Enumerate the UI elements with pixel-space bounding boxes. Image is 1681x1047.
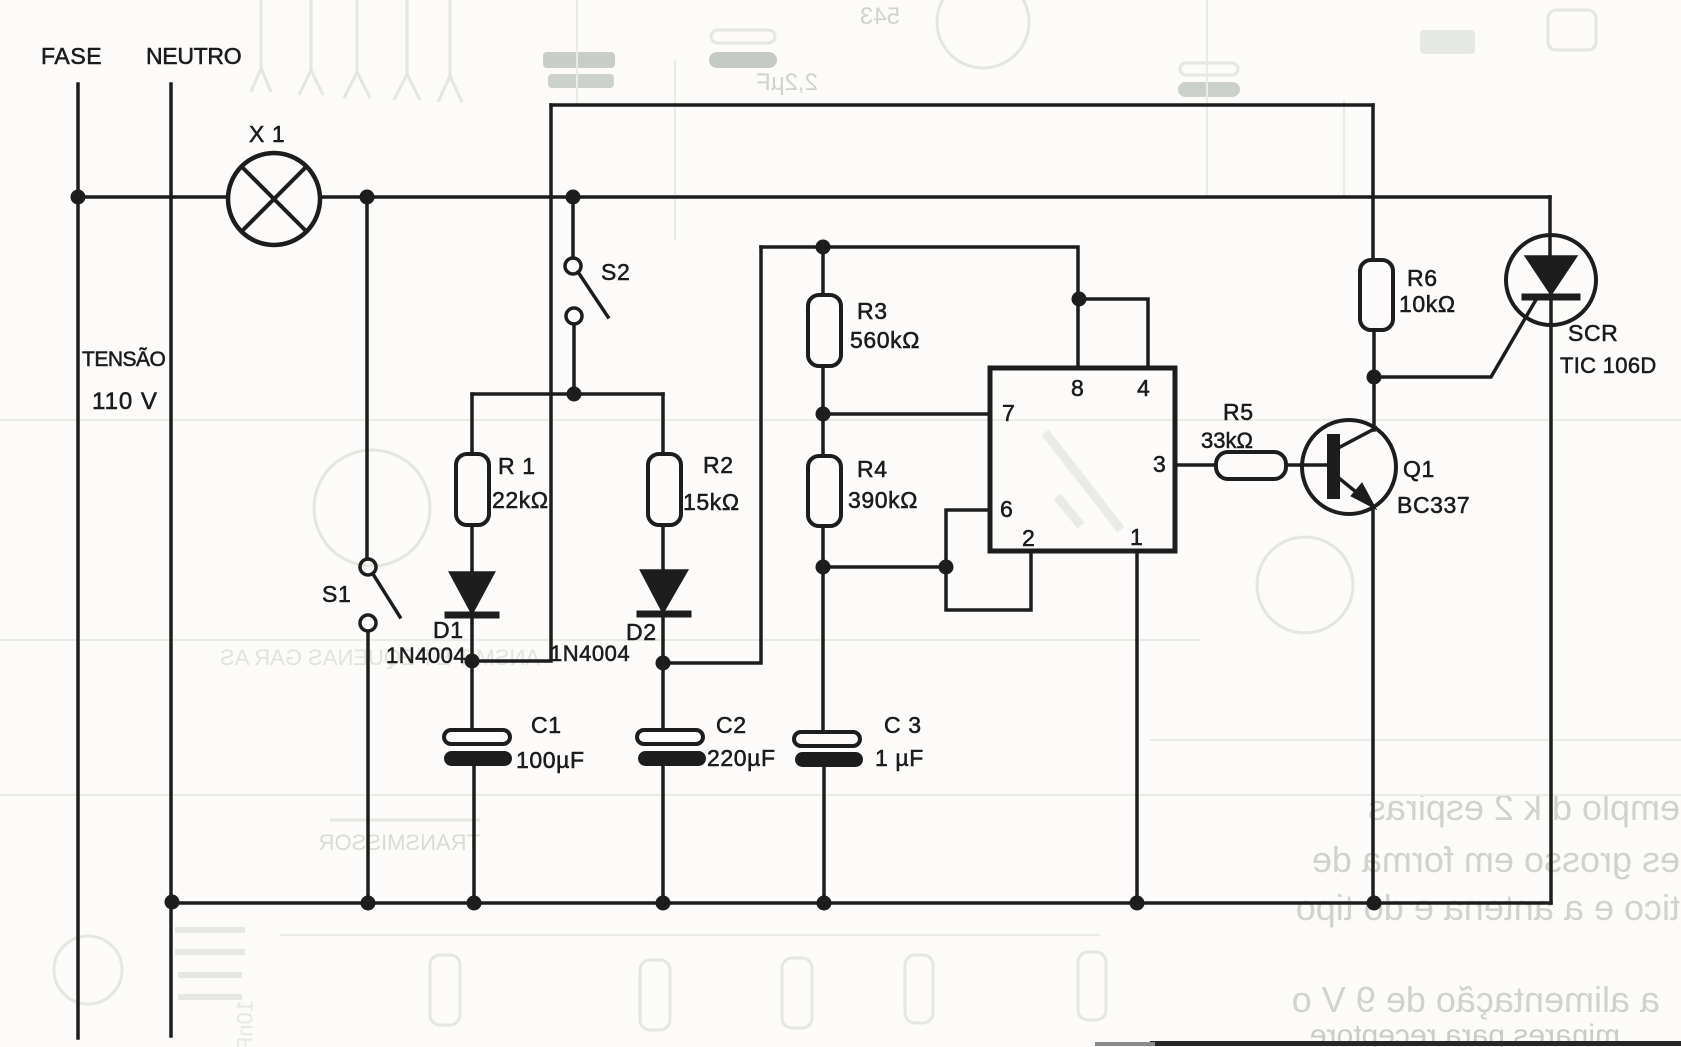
svg-text:3: 3 xyxy=(1153,451,1166,477)
node C1 bottom junction xyxy=(467,896,482,911)
wire R2 to D2 xyxy=(661,525,665,573)
svg-text:S1: S1 xyxy=(322,581,351,607)
svg-text:22kΩ: 22kΩ xyxy=(492,487,549,513)
node D2-C2 junction xyxy=(656,656,671,671)
ghost mark inside IC (decorative) xyxy=(1048,436,1118,526)
bottom-right dark scan edge xyxy=(1150,1041,1681,1046)
wire S1 upper stub xyxy=(365,197,369,559)
node S1 bottom junction xyxy=(361,896,376,911)
svg-text:10kΩ: 10kΩ xyxy=(1399,291,1456,317)
SCR TIC106D xyxy=(1506,235,1596,325)
wire R1 to D1 xyxy=(470,525,474,575)
svg-text:6: 6 xyxy=(1000,496,1013,522)
svg-text:R6: R6 xyxy=(1407,265,1438,291)
node R3 top junction xyxy=(816,240,831,255)
svg-text:8: 8 xyxy=(1071,375,1084,401)
svg-text:Q1: Q1 xyxy=(1403,456,1435,482)
resistor R6 xyxy=(1360,260,1393,330)
resistor R2 xyxy=(648,454,681,525)
node pin1 bottom junction xyxy=(1130,896,1145,911)
svg-text:7: 7 xyxy=(1002,400,1015,426)
wire R3 bottom to pin7 bus xyxy=(823,366,990,414)
svg-text:33kΩ: 33kΩ xyxy=(1201,428,1253,453)
wire D2 to C2 xyxy=(661,617,665,731)
diode D1 xyxy=(448,573,496,615)
switch S2 xyxy=(565,258,608,324)
svg-text:TRANSMISSOR: TRANSMISSOR xyxy=(319,830,480,855)
svg-text:390kΩ: 390kΩ xyxy=(848,487,918,513)
wire S2 lower stub xyxy=(572,324,576,394)
capacitor C1 xyxy=(444,730,512,766)
svg-text:TIC 106D: TIC 106D xyxy=(1560,353,1657,378)
wire SCR cathode lead xyxy=(1549,297,1553,903)
wire pin6 link xyxy=(946,510,990,567)
svg-text:TENSÃO: TENSÃO xyxy=(82,347,166,371)
node R3-R4 junction xyxy=(816,407,831,422)
node pin4 branch junction xyxy=(1072,292,1087,307)
resistor R4 xyxy=(808,456,841,526)
svg-text:100µF: 100µF xyxy=(516,747,585,773)
wire FASE rail xyxy=(76,84,80,1038)
node D1-C1 junction xyxy=(465,654,480,669)
svg-text:SCR: SCR xyxy=(1568,320,1618,346)
node FASE junction xyxy=(71,190,86,205)
wire R5 to Q1 base xyxy=(1286,463,1328,467)
resistor R3 xyxy=(808,295,841,366)
resistor R5 xyxy=(1216,452,1286,479)
svg-text:110 V: 110 V xyxy=(92,388,158,415)
resistor R1 xyxy=(456,454,489,525)
wire x=551 drop to D1 cathode xyxy=(472,105,551,661)
wire R1-R2 top bus y=394 xyxy=(472,392,663,396)
diode D2 xyxy=(640,571,688,614)
svg-text:emplo d k 2 espiras: emplo d k 2 espiras xyxy=(1368,787,1680,828)
wire R1 top lead xyxy=(470,394,474,454)
wire pin2 link xyxy=(946,551,1031,610)
node S2 top junction xyxy=(566,190,581,205)
svg-text:C 3: C 3 xyxy=(884,712,922,738)
svg-text:15kΩ: 15kΩ xyxy=(683,489,740,515)
svg-text:1N4004: 1N4004 xyxy=(550,641,630,666)
capacitor C2 xyxy=(637,730,706,766)
wire R4 bottom lead xyxy=(821,526,825,733)
svg-text:C2: C2 xyxy=(716,712,747,738)
svg-text:220µF: 220µF xyxy=(707,745,776,771)
node X1 right junction xyxy=(360,190,375,205)
svg-text:D2: D2 xyxy=(626,619,657,645)
node C3 bottom junction xyxy=(817,896,832,911)
wire top link y=105 xyxy=(551,103,1373,107)
wire R4 top lead xyxy=(821,414,825,456)
svg-text:543: 543 xyxy=(860,3,900,30)
wire C2 bottom lead xyxy=(661,766,665,903)
wire main top net y=197 xyxy=(78,195,1550,199)
lamp X1 xyxy=(228,153,320,245)
svg-text:4: 4 xyxy=(1137,375,1150,401)
switch S1 xyxy=(360,559,400,631)
wire D2 junction to x761 riser xyxy=(663,247,761,663)
svg-text:BC337: BC337 xyxy=(1397,492,1470,518)
svg-text:R 1: R 1 xyxy=(498,453,536,479)
node bottom bus left end xyxy=(165,895,180,910)
wire R4 junction to pin6/pin2 column xyxy=(823,565,946,569)
wire SCR anode lead xyxy=(1548,197,1552,257)
wire D1 to C1 xyxy=(470,618,474,731)
node gate junction xyxy=(1367,370,1382,385)
svg-text:ANSMIT E PEQUENAS GAR AS: ANSMIT E PEQUENAS GAR AS xyxy=(220,645,540,670)
svg-text:tico e a antena e do tipo: tico e a antena e do tipo xyxy=(1296,887,1680,928)
svg-text:1N4004: 1N4004 xyxy=(386,643,466,668)
svg-text:R4: R4 xyxy=(857,456,888,482)
svg-text:1 µF: 1 µF xyxy=(875,745,924,771)
capacitor C3 xyxy=(794,732,863,767)
svg-text:R3: R3 xyxy=(857,298,888,324)
svg-text:R2: R2 xyxy=(703,452,734,478)
wire S2 upper stub xyxy=(571,197,575,258)
wire pin3 to R5 xyxy=(1175,463,1216,467)
svg-text:a alimentação de 9 V o: a alimentação de 9 V o xyxy=(1292,979,1660,1020)
wire pin4 branch xyxy=(1078,299,1148,368)
svg-text:NEUTRO: NEUTRO xyxy=(146,43,241,69)
node R4 bottom junction xyxy=(816,560,831,575)
node pin6/pin2 column junction xyxy=(939,560,954,575)
svg-text:D1: D1 xyxy=(433,617,464,643)
svg-text:10nF: 10nF xyxy=(233,1000,258,1047)
op-amp U1 IC box xyxy=(990,368,1175,551)
wire R6 column top xyxy=(1371,105,1375,260)
node C2 bottom junction xyxy=(656,896,671,911)
wire gate link to SCR xyxy=(1374,298,1537,377)
svg-text:C1: C1 xyxy=(531,712,562,738)
wire C3 bottom lead xyxy=(822,766,826,903)
node S2 bottom junction xyxy=(567,387,582,402)
wire C1 bottom lead xyxy=(472,766,476,903)
wire supply bus y=247 to pin8 xyxy=(761,247,1078,368)
wire pin1 lead xyxy=(1135,551,1139,903)
svg-text:es grosso em forma de: es grosso em forma de xyxy=(1312,839,1680,880)
svg-text:560kΩ: 560kΩ xyxy=(850,327,920,353)
svg-text:X 1: X 1 xyxy=(249,121,285,147)
node Q1 emitter bottom junction xyxy=(1367,896,1382,911)
wire bottom bus y=903 xyxy=(171,901,1551,905)
wire R3 top lead xyxy=(821,247,825,295)
wire R2 top lead xyxy=(661,394,665,454)
transistor Q1 xyxy=(1302,420,1396,514)
svg-text:S2: S2 xyxy=(601,259,630,285)
svg-text:2,2µF: 2,2µF xyxy=(756,69,818,96)
svg-text:1: 1 xyxy=(1130,524,1143,550)
wire NEUTRO rail xyxy=(169,84,173,1036)
wire Q1 emitter lead xyxy=(1371,507,1375,903)
svg-text:FASE: FASE xyxy=(41,43,102,69)
wire R6 bottom to Q1 collector xyxy=(1372,330,1376,430)
svg-text:2: 2 xyxy=(1022,525,1035,551)
svg-text:R5: R5 xyxy=(1223,399,1254,425)
wire S1 lower stub xyxy=(366,631,370,903)
